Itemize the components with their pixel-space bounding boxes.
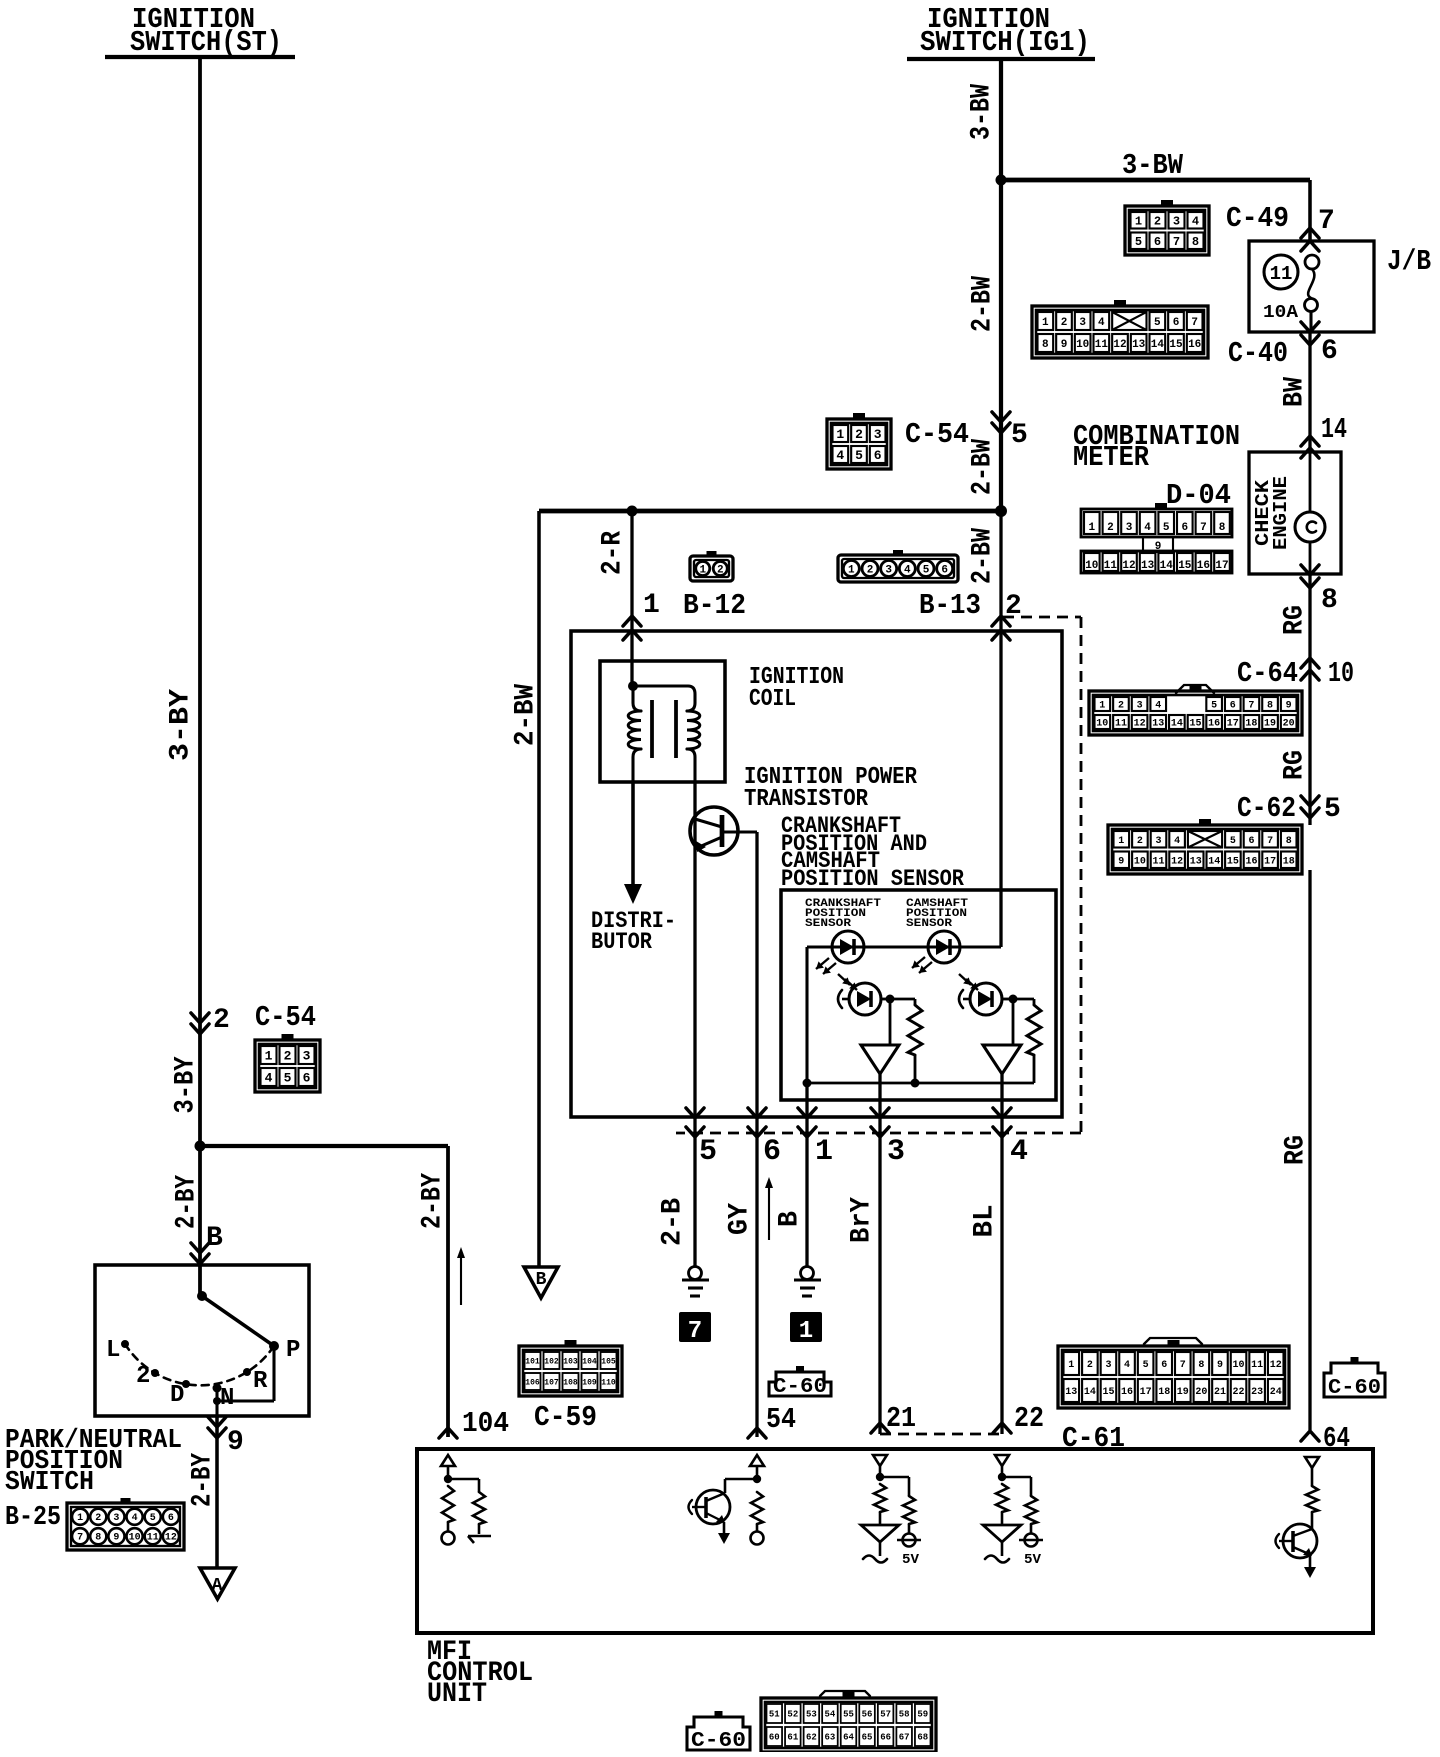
connector B-13 6-pin	[838, 550, 958, 582]
svg-text:13: 13	[1141, 560, 1155, 572]
svg-text:18: 18	[1245, 719, 1257, 730]
svg-text:10: 10	[1085, 560, 1098, 572]
svg-text:3: 3	[874, 427, 882, 442]
component label COMBINATION METER	[1073, 420, 1240, 474]
svg-text:1: 1	[265, 1049, 273, 1064]
svg-text:6: 6	[168, 1513, 174, 1524]
wire RG long down to MFI pin 64	[1308, 870, 1311, 1430]
svg-text:6: 6	[941, 564, 948, 576]
ground reference box 7	[679, 1312, 711, 1345]
svg-text:2: 2	[1061, 317, 1068, 329]
ground symbol at B	[794, 1267, 821, 1297]
svg-text:109: 109	[582, 1378, 597, 1387]
component label PARK/NEUTRAL POSITION SWITCH	[5, 1426, 182, 1498]
wire 2-BW horizontal branch at junction	[539, 511, 1001, 1267]
MFI input circuit pin 21	[861, 1455, 921, 1568]
ignition coil box	[600, 661, 725, 782]
svg-text:1: 1	[1099, 701, 1105, 712]
wire BrY to MFI pin 21	[878, 1143, 881, 1434]
svg-text:1: 1	[643, 590, 660, 621]
ground reference box 1	[790, 1312, 822, 1345]
terminal A triangle	[200, 1568, 235, 1599]
svg-text:GY: GY	[725, 1203, 756, 1235]
svg-text:8: 8	[1286, 836, 1292, 847]
svg-text:2: 2	[284, 1049, 292, 1064]
svg-text:17: 17	[1264, 856, 1276, 867]
svg-text:1: 1	[1042, 317, 1049, 329]
svg-text:1: 1	[799, 1318, 813, 1345]
MFI input circuit pin 22	[983, 1455, 1043, 1568]
svg-text:14: 14	[1151, 339, 1165, 351]
svg-text:16: 16	[1197, 560, 1210, 572]
MFI connector 51-68	[761, 1691, 936, 1752]
wire N contact to switch output	[215, 1388, 218, 1416]
svg-text:B: B	[536, 1270, 547, 1290]
svg-text:3: 3	[887, 1135, 905, 1169]
cam amplifier triangle	[983, 999, 1021, 1074]
svg-text:5: 5	[1230, 836, 1236, 847]
svg-text:METER: METER	[1073, 441, 1150, 474]
svg-text:11: 11	[1115, 719, 1127, 730]
park/neutral switch pivot node	[197, 1291, 207, 1301]
junction block J/B box	[1249, 241, 1374, 332]
svg-text:52: 52	[787, 1710, 798, 1720]
svg-text:5: 5	[284, 1071, 292, 1086]
wire from P to N junction	[217, 1399, 274, 1402]
svg-text:6: 6	[1181, 522, 1188, 534]
svg-text:7: 7	[1191, 317, 1198, 329]
junction node 3-BW branch	[996, 175, 1007, 186]
connector C-61 24-pin	[1058, 1338, 1289, 1408]
svg-text:104: 104	[582, 1357, 597, 1366]
svg-text:15: 15	[1189, 719, 1201, 730]
sensor label crankshaft position sensor (small)	[805, 898, 881, 930]
svg-text:3: 3	[1079, 317, 1086, 329]
chevrons at switch output pin 9	[208, 1417, 226, 1438]
svg-text:BL: BL	[970, 1205, 1001, 1238]
svg-text:D-04: D-04	[1166, 479, 1231, 512]
contact dot D	[182, 1380, 190, 1388]
svg-text:4: 4	[1124, 1360, 1130, 1371]
svg-text:11: 11	[1270, 263, 1293, 285]
chevron at pin 22	[993, 1423, 1011, 1433]
svg-text:3-BW: 3-BW	[1122, 149, 1184, 182]
chevron at pin 21	[871, 1423, 889, 1433]
wire B to ground	[805, 1143, 808, 1267]
chevrons below check engine pin 8	[1301, 565, 1319, 588]
svg-text:3: 3	[1105, 1360, 1111, 1371]
svg-text:D: D	[170, 1382, 184, 1409]
svg-text:103: 103	[563, 1357, 578, 1366]
svg-text:21: 21	[1214, 1387, 1226, 1398]
svg-text:POSITION SENSOR: POSITION SENSOR	[781, 866, 964, 892]
connector C-60 (right) label box	[1324, 1363, 1385, 1397]
contact dot R	[243, 1368, 251, 1376]
svg-text:54: 54	[766, 1403, 796, 1436]
wire coil secondary down to MFI pin 5 line	[693, 782, 696, 1143]
crankshaft photodiode	[838, 983, 881, 1015]
svg-text:P: P	[286, 1337, 300, 1364]
svg-text:12: 12	[165, 1533, 177, 1544]
svg-text:SWITCH(ST): SWITCH(ST)	[130, 26, 282, 59]
svg-text:66: 66	[880, 1733, 891, 1743]
connector C-54 (top) 6-pin	[827, 413, 891, 469]
svg-text:C-49: C-49	[1226, 202, 1289, 235]
ground terminal B triangle	[524, 1267, 558, 1298]
svg-text:16: 16	[1121, 1387, 1133, 1398]
svg-text:101: 101	[525, 1357, 540, 1366]
svg-text:C-40: C-40	[1228, 337, 1288, 370]
svg-text:2-BW: 2-BW	[968, 528, 999, 584]
svg-text:BrY: BrY	[847, 1197, 878, 1243]
svg-text:3: 3	[1155, 836, 1161, 847]
svg-text:55: 55	[843, 1710, 854, 1720]
svg-text:5: 5	[699, 1135, 717, 1169]
svg-text:5: 5	[1154, 317, 1161, 329]
sensor assembly dashed box	[676, 617, 1081, 1133]
svg-text:C-60: C-60	[691, 1730, 746, 1752]
distributor assembly outer box	[571, 631, 1062, 1117]
svg-text:B-25: B-25	[5, 1503, 61, 1533]
svg-text:9: 9	[227, 1427, 244, 1458]
svg-text:5: 5	[1211, 701, 1217, 712]
svg-text:9: 9	[1118, 856, 1124, 867]
svg-text:54: 54	[825, 1710, 836, 1720]
svg-text:10: 10	[1328, 657, 1354, 690]
svg-text:53: 53	[806, 1710, 817, 1720]
svg-text:17: 17	[1227, 719, 1239, 730]
svg-text:C-64: C-64	[1237, 657, 1298, 690]
svg-text:11: 11	[1251, 1360, 1263, 1371]
crankshaft sensor LED	[832, 931, 864, 963]
svg-text:5: 5	[1011, 420, 1028, 451]
svg-text:6: 6	[763, 1135, 781, 1169]
svg-text:14: 14	[1084, 1387, 1096, 1398]
svg-text:2: 2	[717, 564, 724, 576]
svg-text:5: 5	[1135, 235, 1142, 249]
svg-text:4: 4	[132, 1513, 138, 1524]
dashed link pins 21-22	[880, 1433, 1002, 1436]
wire BW from J/B to check engine lamp	[1308, 332, 1311, 452]
component label IGNITION COIL	[749, 664, 844, 713]
svg-text:19: 19	[1177, 1387, 1189, 1398]
svg-text:67: 67	[899, 1733, 910, 1743]
svg-text:5V: 5V	[902, 1552, 920, 1568]
chevrons at C-62 pin 5	[1301, 796, 1319, 818]
svg-text:10: 10	[1096, 719, 1108, 730]
connector C-59 10-pin	[519, 1340, 622, 1396]
svg-text:5: 5	[150, 1513, 156, 1524]
svg-text:4: 4	[904, 564, 911, 576]
wire into park/neutral switch	[198, 1146, 202, 1296]
svg-text:108: 108	[563, 1378, 578, 1387]
svg-text:11: 11	[1095, 339, 1109, 351]
LED light arrows camshaft	[912, 957, 932, 973]
svg-text:107: 107	[544, 1378, 559, 1387]
svg-text:7: 7	[1267, 836, 1273, 847]
svg-text:6: 6	[1161, 1360, 1167, 1371]
chevron at pin 104	[439, 1428, 457, 1438]
svg-text:7: 7	[1318, 206, 1335, 237]
svg-text:B: B	[775, 1211, 806, 1227]
wire GY to MFI pin 54	[755, 1143, 758, 1437]
wire 2-B to ground	[693, 1143, 696, 1267]
svg-text:SWITCH(IG1): SWITCH(IG1)	[920, 26, 1090, 59]
svg-text:C-59: C-59	[534, 1401, 597, 1434]
svg-text:C-62: C-62	[1237, 792, 1296, 825]
svg-text:2: 2	[867, 564, 874, 576]
svg-text:110: 110	[601, 1378, 616, 1387]
svg-text:23: 23	[1251, 1387, 1263, 1398]
svg-text:7: 7	[1248, 701, 1254, 712]
svg-text:11: 11	[1104, 560, 1118, 572]
svg-text:4: 4	[1098, 317, 1105, 329]
svg-text:22: 22	[1014, 1402, 1044, 1435]
svg-text:3: 3	[1173, 215, 1180, 229]
svg-text:17: 17	[1215, 560, 1228, 572]
chevrons at distributor box bottom pins	[686, 1108, 1011, 1137]
svg-text:1: 1	[815, 1135, 833, 1169]
svg-text:14: 14	[1321, 413, 1347, 446]
svg-text:1: 1	[1118, 836, 1124, 847]
cam pull resistor	[1013, 999, 1041, 1083]
svg-text:1: 1	[699, 564, 706, 576]
component label IGNITION POWER TRANSISTOR	[744, 764, 918, 813]
svg-text:57: 57	[880, 1710, 891, 1720]
component label CRANKSHAFT POSITION AND CAMSHAFT POSITION SENSOR	[781, 813, 964, 892]
check engine lamp label CHECK ENGINE	[1252, 476, 1292, 550]
chevrons at B-12 pin 1	[623, 616, 641, 640]
MFI driver circuit pin 54	[689, 1455, 765, 1545]
svg-text:5: 5	[855, 448, 863, 463]
sensor inner box	[781, 890, 1056, 1100]
svg-text:16: 16	[1188, 339, 1201, 351]
svg-text:61: 61	[787, 1733, 798, 1743]
svg-text:TRANSISTOR: TRANSISTOR	[744, 786, 869, 813]
svg-text:BW: BW	[1280, 377, 1311, 407]
svg-text:6: 6	[874, 448, 882, 463]
contact dot 2	[151, 1369, 159, 1377]
svg-text:14: 14	[1171, 719, 1183, 730]
svg-text:12: 12	[1122, 560, 1135, 572]
wire LED supply row	[807, 947, 1001, 1083]
svg-text:3: 3	[1137, 701, 1143, 712]
fuse 10A symbol	[1305, 255, 1320, 332]
sensor ground rail	[803, 1079, 1035, 1088]
svg-text:B-13: B-13	[919, 589, 981, 622]
svg-text:N: N	[220, 1385, 234, 1412]
svg-text:10: 10	[129, 1533, 141, 1544]
svg-text:5: 5	[1163, 522, 1170, 534]
park/neutral switch contact arc dashed	[125, 1344, 274, 1385]
svg-text:6: 6	[1321, 336, 1338, 367]
connector C-54 crossing pin 2 chevrons	[191, 1013, 209, 1034]
wire 2-BW from junction to sensor supply	[999, 511, 1002, 947]
connector C-60 (bottom) label box	[687, 1717, 750, 1750]
junction node N-P	[213, 1397, 221, 1405]
svg-text:12: 12	[1270, 1360, 1282, 1371]
chevron at pin 54	[748, 1428, 766, 1438]
svg-text:65: 65	[862, 1733, 873, 1743]
connector C-54 (left) 6-pin	[255, 1034, 320, 1092]
MFI lamp driver circuit pin 64	[1276, 1457, 1320, 1578]
svg-text:6: 6	[1173, 317, 1180, 329]
svg-text:9: 9	[1286, 701, 1292, 712]
svg-text:7: 7	[1173, 235, 1180, 249]
svg-text:21: 21	[886, 1402, 916, 1435]
component label DISTRIBUTOR	[591, 908, 676, 955]
svg-text:4: 4	[1192, 215, 1199, 229]
svg-text:15: 15	[1102, 1387, 1114, 1398]
svg-text:104: 104	[462, 1407, 509, 1440]
svg-text:2-BW: 2-BW	[968, 276, 999, 332]
svg-text:4: 4	[1010, 1135, 1028, 1169]
svg-text:106: 106	[525, 1378, 540, 1387]
check engine lamp box	[1249, 452, 1341, 574]
park/neutral switch selector arm to P	[202, 1296, 274, 1346]
svg-text:3-BY: 3-BY	[171, 1056, 202, 1113]
svg-text:5: 5	[1324, 794, 1341, 825]
chevrons at C-54 pin 5	[992, 412, 1010, 433]
svg-text:5: 5	[1143, 1360, 1149, 1371]
wire transistor base to MFI pin 6 line	[722, 832, 757, 1143]
svg-text:J/B: J/B	[1387, 245, 1431, 278]
connector C-49 8-pin	[1125, 200, 1209, 255]
svg-text:SWITCH: SWITCH	[5, 1468, 94, 1498]
svg-text:7: 7	[77, 1533, 83, 1544]
svg-text:1: 1	[848, 564, 855, 576]
svg-text:8: 8	[1042, 339, 1049, 351]
wire 3-BW from ignition switch IG1	[999, 59, 1003, 180]
wire RG C-64 to C-62	[1308, 691, 1311, 825]
svg-text:12: 12	[1171, 856, 1183, 867]
svg-text:15: 15	[1169, 339, 1183, 351]
svg-text:20: 20	[1195, 1387, 1207, 1398]
crank photodiode output node	[881, 995, 895, 1004]
svg-text:9: 9	[1061, 339, 1068, 351]
svg-text:20: 20	[1283, 719, 1295, 730]
svg-text:2-BW: 2-BW	[968, 439, 999, 495]
crank pull resistor	[890, 999, 922, 1083]
svg-text:4: 4	[1155, 701, 1161, 712]
svg-text:8: 8	[1267, 701, 1273, 712]
svg-text:2: 2	[136, 1363, 150, 1390]
svg-text:2: 2	[1118, 701, 1124, 712]
camshaft photodiode	[959, 983, 1002, 1015]
LED light arrows crankshaft	[816, 958, 836, 974]
svg-text:A: A	[212, 1576, 223, 1596]
svg-text:B: B	[206, 1223, 223, 1254]
svg-text:1: 1	[1088, 522, 1095, 534]
wire 2-BW down to C-54 pin 5	[999, 180, 1003, 511]
connector D-04 17-pin	[1081, 503, 1232, 573]
svg-text:COIL: COIL	[749, 686, 796, 713]
flow direction arrow up (2-BY branch)	[457, 1247, 465, 1305]
svg-text:6: 6	[1230, 701, 1236, 712]
svg-text:10: 10	[1076, 339, 1089, 351]
svg-text:6: 6	[1248, 836, 1254, 847]
wire cam amp output to pin 4	[1000, 1074, 1003, 1143]
svg-text:14: 14	[1160, 560, 1174, 572]
svg-text:1: 1	[836, 427, 844, 442]
wire 2-BY vertical to MFI pin 104	[446, 1146, 450, 1437]
component label MFI CONTROL UNIT	[427, 1637, 533, 1710]
svg-text:6: 6	[303, 1071, 311, 1086]
svg-text:RG: RG	[1280, 750, 1311, 780]
ignition coil secondary winding	[633, 686, 700, 782]
svg-text:63: 63	[825, 1733, 836, 1743]
svg-text:17: 17	[1140, 1387, 1152, 1398]
svg-text:11: 11	[147, 1533, 159, 1544]
svg-text:10A: 10A	[1263, 303, 1298, 323]
check engine lamp bulb	[1295, 452, 1325, 574]
svg-text:8: 8	[1219, 522, 1226, 534]
svg-text:56: 56	[862, 1710, 873, 1720]
svg-text:3: 3	[113, 1513, 119, 1524]
svg-text:5: 5	[923, 564, 930, 576]
power source label IGNITION SWITCH(ST)	[105, 3, 295, 59]
chevrons at C-64 pin 10	[1301, 658, 1319, 680]
svg-text:RG: RG	[1280, 605, 1311, 635]
cam photodiode output node	[1002, 995, 1018, 1004]
svg-text:8: 8	[1192, 235, 1199, 249]
svg-text:8: 8	[1321, 585, 1338, 616]
wire 3-BW horizontal branch to J/B	[1001, 180, 1310, 241]
contact dot P	[269, 1341, 279, 1351]
wire 3-BY from ignition switch ST down left side	[198, 57, 202, 1146]
svg-text:C-54: C-54	[255, 1001, 316, 1034]
power source label IGNITION SWITCH(IG1)	[907, 3, 1095, 59]
svg-text:16: 16	[1245, 856, 1257, 867]
svg-text:64: 64	[843, 1733, 854, 1743]
flow direction arrow up at wire B	[765, 1177, 773, 1240]
svg-text:2: 2	[213, 1005, 230, 1036]
svg-text:5V: 5V	[1024, 1552, 1042, 1568]
svg-text:B-12: B-12	[683, 589, 746, 622]
ignition coil primary winding	[628, 681, 641, 782]
svg-text:4: 4	[1144, 522, 1151, 534]
crank amplifier triangle	[861, 999, 899, 1074]
svg-text:2: 2	[1137, 836, 1143, 847]
chevrons at combination meter pin 14	[1301, 436, 1319, 458]
ground symbol at 2-B	[682, 1267, 709, 1297]
chevrons at park/neutral switch pin B	[191, 1243, 209, 1264]
svg-text:7: 7	[688, 1318, 702, 1345]
svg-text:13: 13	[1132, 339, 1146, 351]
ignition power transistor Q1	[690, 807, 738, 855]
chevrons at J/B pin 7	[1301, 228, 1319, 251]
photodiode light arrows crankshaft	[838, 974, 857, 990]
svg-text:2: 2	[1107, 522, 1114, 534]
MFI input circuit pin 104	[441, 1455, 491, 1545]
junction node left wire to 2-BY branch	[195, 1141, 206, 1152]
svg-text:RG: RG	[1281, 1135, 1312, 1165]
svg-text:12: 12	[1113, 339, 1126, 351]
svg-text:C-54: C-54	[905, 418, 969, 451]
svg-text:6: 6	[1154, 235, 1161, 249]
svg-text:SENSOR: SENSOR	[906, 918, 952, 930]
connector C-60 (center) label box	[769, 1372, 831, 1396]
svg-text:10: 10	[1134, 856, 1146, 867]
svg-text:3: 3	[885, 564, 892, 576]
svg-text:C-60: C-60	[1328, 1377, 1381, 1400]
svg-text:62: 62	[806, 1733, 817, 1743]
svg-text:SENSOR: SENSOR	[805, 918, 851, 930]
svg-text:7: 7	[1180, 1360, 1186, 1371]
chevrons at B-13 pin 2	[992, 616, 1010, 640]
photodiode light arrows camshaft	[959, 974, 978, 990]
svg-text:8: 8	[1198, 1360, 1204, 1371]
